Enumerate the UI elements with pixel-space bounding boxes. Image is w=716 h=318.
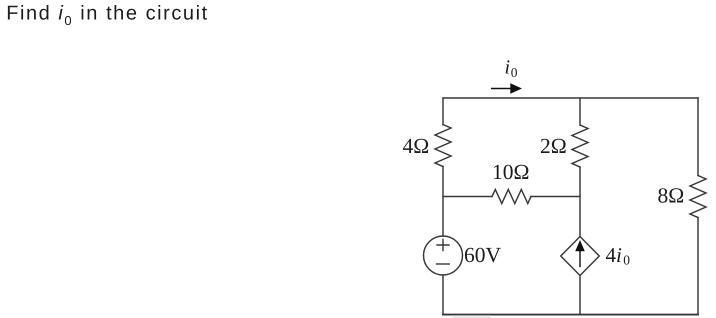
wire middle horizontal node, left part bbox=[443, 196, 492, 198]
arrow shaft of current source bbox=[579, 250, 581, 267]
current label i0 arrowhead bbox=[510, 83, 522, 94]
svg-text:60V: 60V bbox=[464, 243, 502, 267]
svg-text:4i: 4i bbox=[606, 243, 623, 267]
current label i0 arrow shaft bbox=[491, 88, 512, 90]
arrowhead of current source 4i0 bbox=[575, 240, 585, 251]
wire left vertical, resistor to source bbox=[442, 167, 444, 237]
svg-text:4Ω: 4Ω bbox=[403, 134, 430, 158]
wire middle vertical bottom segment bbox=[579, 276, 581, 315]
svg-text:i: i bbox=[505, 57, 511, 79]
faint artifact bottom bbox=[452, 315, 490, 318]
wire left vertical top segment bbox=[442, 98, 444, 125]
wire right vertical bottom segment bbox=[697, 218, 699, 315]
resistor R 8ohm bbox=[690, 176, 706, 218]
wire middle vertical, resistor to node bbox=[579, 167, 581, 237]
wire bottom bbox=[443, 314, 698, 316]
svg-text:Find i0 in the circuit: Find i0 in the circuit bbox=[6, 2, 209, 28]
current source 4i0 diamond bbox=[561, 237, 600, 276]
svg-text:10Ω: 10Ω bbox=[492, 160, 529, 184]
svg-text:2Ω: 2Ω bbox=[540, 134, 567, 158]
voltage source V1 60V circle bbox=[424, 236, 463, 275]
resistor R 2ohm bbox=[572, 125, 588, 167]
wire right vertical top segment bbox=[697, 98, 699, 176]
wire top (node with i0 current) bbox=[443, 97, 698, 99]
resistor R 4ohm bbox=[435, 125, 451, 167]
wire middle vertical top segment bbox=[579, 98, 581, 125]
plus sign of 60V source bbox=[437, 240, 449, 251]
wire middle horizontal node, right part bbox=[531, 196, 580, 198]
minus sign of 60V source bbox=[437, 263, 450, 265]
svg-text:8Ω: 8Ω bbox=[658, 184, 685, 208]
resistor R 10ohm bbox=[492, 190, 531, 204]
wire left vertical bottom segment bbox=[442, 275, 444, 315]
svg-text:0: 0 bbox=[623, 253, 630, 268]
svg-text:0: 0 bbox=[511, 65, 518, 80]
